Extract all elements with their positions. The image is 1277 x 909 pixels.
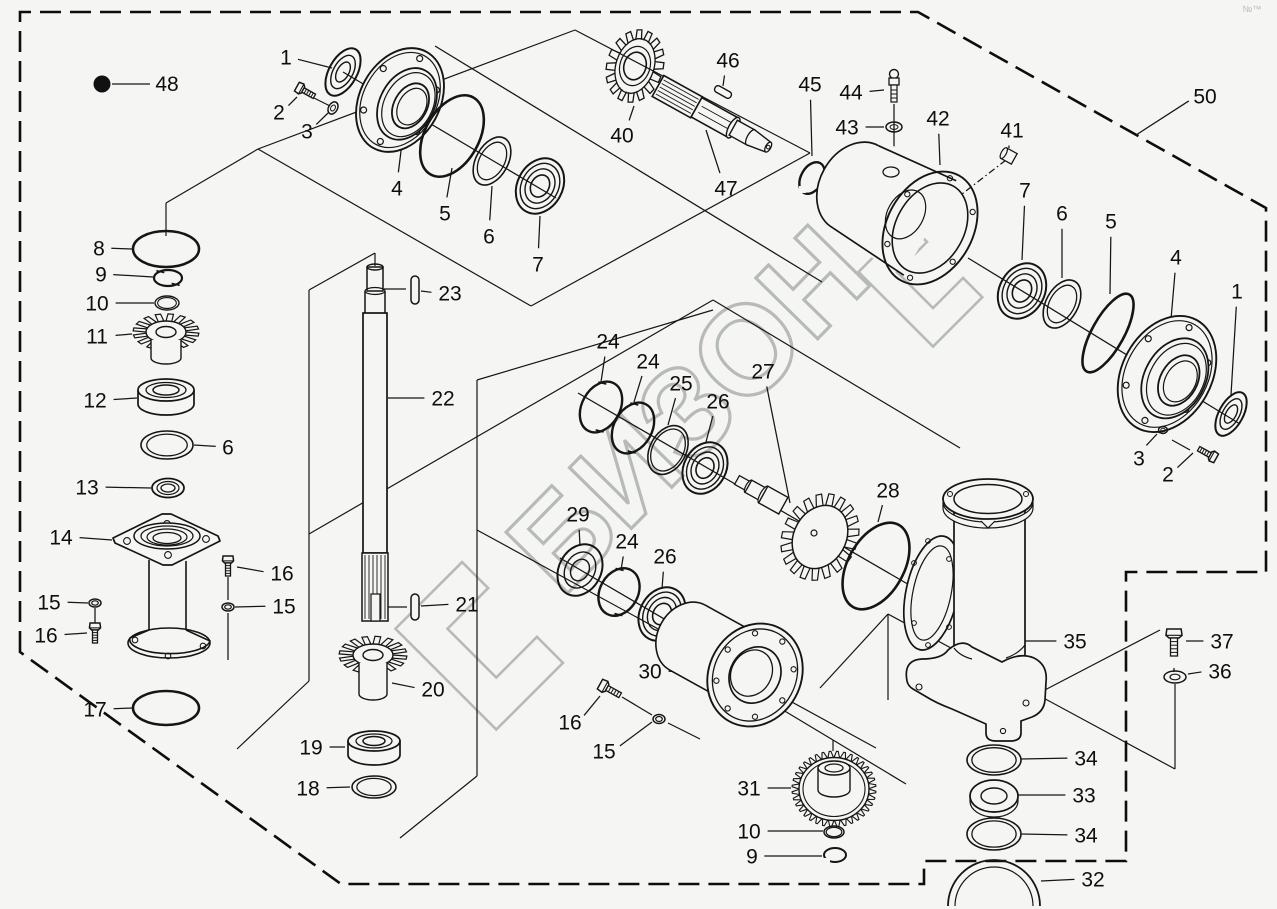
svg-text:6: 6: [222, 437, 234, 460]
svg-text:24: 24: [596, 331, 620, 354]
svg-text:31: 31: [737, 778, 760, 801]
svg-text:46: 46: [716, 50, 739, 73]
svg-text:15: 15: [272, 596, 295, 619]
svg-text:37: 37: [1210, 631, 1233, 654]
svg-text:2: 2: [1162, 464, 1174, 487]
svg-text:29: 29: [566, 504, 589, 527]
svg-text:40: 40: [610, 125, 633, 148]
svg-text:17: 17: [83, 699, 106, 722]
svg-text:18: 18: [296, 778, 319, 801]
svg-text:35: 35: [1063, 631, 1086, 654]
svg-text:5: 5: [1105, 211, 1117, 234]
svg-text:6: 6: [483, 226, 495, 249]
svg-text:33: 33: [1072, 785, 1095, 808]
svg-text:4: 4: [391, 178, 403, 201]
svg-text:4: 4: [1170, 247, 1182, 270]
svg-text:24: 24: [636, 351, 660, 374]
svg-text:20: 20: [421, 679, 444, 702]
svg-text:10: 10: [85, 293, 108, 316]
svg-text:25: 25: [669, 373, 692, 396]
svg-text:41: 41: [1000, 120, 1023, 143]
svg-text:16: 16: [558, 712, 581, 735]
svg-text:10: 10: [737, 821, 760, 844]
svg-text:8: 8: [93, 238, 105, 261]
svg-text:6: 6: [1056, 203, 1068, 226]
svg-text:1: 1: [1231, 281, 1243, 304]
svg-text:26: 26: [653, 546, 676, 569]
svg-text:45: 45: [798, 74, 821, 97]
svg-text:24: 24: [615, 531, 639, 554]
svg-text:15: 15: [37, 592, 60, 615]
svg-text:7: 7: [532, 254, 544, 277]
svg-text:32: 32: [1081, 869, 1104, 892]
svg-text:13: 13: [75, 477, 98, 500]
svg-text:50: 50: [1193, 86, 1216, 109]
svg-text:22: 22: [431, 388, 454, 411]
svg-text:9: 9: [746, 846, 758, 869]
svg-text:28: 28: [876, 480, 899, 503]
svg-text:27: 27: [751, 361, 774, 384]
svg-text:19: 19: [299, 737, 322, 760]
svg-text:1: 1: [280, 47, 292, 70]
svg-text:42: 42: [926, 108, 949, 131]
svg-text:12: 12: [83, 390, 106, 413]
svg-text:14: 14: [49, 527, 73, 550]
svg-text:16: 16: [34, 625, 57, 648]
svg-text:2: 2: [273, 102, 285, 125]
svg-text:№™: №™: [1243, 4, 1262, 14]
svg-text:43: 43: [835, 117, 858, 140]
svg-text:34: 34: [1074, 748, 1098, 771]
svg-text:30: 30: [638, 661, 661, 684]
svg-text:26: 26: [706, 391, 729, 414]
svg-text:21: 21: [455, 594, 478, 617]
svg-text:15: 15: [592, 741, 615, 764]
svg-text:36: 36: [1208, 661, 1231, 684]
svg-text:7: 7: [1019, 180, 1031, 203]
svg-text:23: 23: [438, 283, 461, 306]
svg-text:5: 5: [439, 203, 451, 226]
svg-text:34: 34: [1074, 825, 1098, 848]
svg-text:3: 3: [301, 121, 313, 144]
svg-text:9: 9: [95, 264, 107, 287]
svg-text:47: 47: [714, 178, 737, 201]
svg-text:16: 16: [270, 563, 293, 586]
svg-text:3: 3: [1133, 448, 1145, 471]
svg-text:11: 11: [86, 326, 108, 349]
svg-text:44: 44: [839, 82, 863, 105]
svg-text:48: 48: [155, 73, 178, 96]
